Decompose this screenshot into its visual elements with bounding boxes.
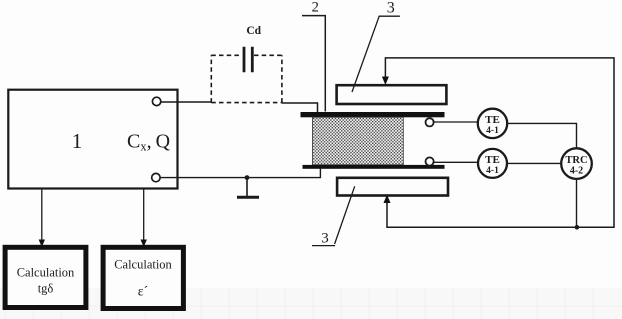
svg-text:3: 3 — [387, 0, 395, 17]
svg-text:3: 3 — [321, 231, 329, 247]
svg-text:tgδ: tgδ — [38, 282, 54, 296]
svg-text:TE: TE — [485, 154, 500, 166]
svg-text:Cd: Cd — [246, 25, 261, 37]
svg-text:4-2: 4-2 — [570, 166, 583, 177]
svg-text:Calculation: Calculation — [17, 266, 75, 280]
svg-text:TE: TE — [485, 114, 500, 126]
svg-text:TRC: TRC — [565, 155, 587, 166]
svg-text:4-1: 4-1 — [486, 126, 499, 136]
svg-text:ε´: ε´ — [138, 285, 149, 300]
svg-text:Cx, Q: Cx, Q — [127, 131, 171, 154]
svg-text:2: 2 — [312, 0, 319, 16]
svg-text:4-1: 4-1 — [486, 166, 499, 176]
svg-text:1: 1 — [72, 129, 83, 153]
svg-text:Calculation: Calculation — [114, 258, 172, 272]
